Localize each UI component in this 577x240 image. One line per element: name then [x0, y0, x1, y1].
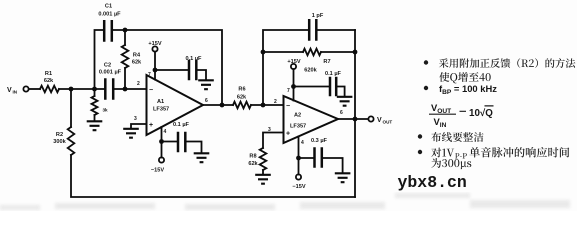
svg-text:0.3 µF: 0.3 µF — [311, 138, 328, 144]
svg-text:VIN: VIN — [434, 116, 447, 129]
svg-text:R1: R1 — [45, 71, 52, 77]
svg-text:A2: A2 — [294, 113, 301, 119]
svg-text:−15V: −15V — [292, 184, 305, 190]
svg-text:fBP = 100 kHz: fBP = 100 kHz — [439, 83, 497, 96]
svg-text:R4: R4 — [133, 53, 141, 59]
svg-text:0.1 µF: 0.1 µF — [186, 56, 203, 62]
svg-text:+15V: +15V — [287, 59, 300, 65]
svg-text:IN: IN — [13, 90, 18, 95]
svg-text:R8: R8 — [249, 154, 256, 160]
svg-text:1 pF: 1 pF — [312, 13, 324, 19]
svg-text:0.1 µF: 0.1 µF — [173, 122, 190, 128]
svg-text:62k: 62k — [248, 161, 258, 167]
svg-text:LF357: LF357 — [290, 124, 306, 130]
svg-text:+: + — [286, 131, 290, 138]
svg-text:R7: R7 — [323, 59, 330, 65]
svg-text:OUT: OUT — [383, 120, 393, 125]
svg-text:6: 6 — [205, 98, 208, 104]
svg-text:3: 3 — [268, 127, 271, 133]
svg-text:VOUT: VOUT — [431, 102, 451, 115]
svg-text:620k: 620k — [304, 68, 317, 74]
svg-text:7: 7 — [287, 88, 290, 94]
svg-text:+: + — [149, 122, 153, 129]
svg-text:V: V — [377, 117, 382, 124]
svg-text:4: 4 — [164, 129, 167, 135]
svg-text:0.1 µF: 0.1 µF — [325, 71, 342, 77]
svg-text:2: 2 — [137, 81, 140, 87]
svg-text:300k: 300k — [53, 139, 66, 145]
svg-text:7: 7 — [148, 72, 151, 78]
svg-text:3k: 3k — [102, 108, 108, 113]
svg-text:3: 3 — [134, 116, 137, 122]
svg-text:62k: 62k — [237, 95, 247, 101]
svg-text:62k: 62k — [44, 78, 54, 84]
svg-text:−: − — [286, 103, 290, 110]
svg-text:C1: C1 — [105, 4, 112, 10]
svg-text:10√Q: 10√Q — [469, 108, 493, 119]
svg-text:V: V — [7, 87, 12, 94]
svg-text:−: − — [149, 87, 153, 94]
svg-text:0.001 µF: 0.001 µF — [99, 70, 122, 76]
svg-text:0.001 µF: 0.001 µF — [98, 12, 121, 18]
svg-text:R2: R2 — [56, 132, 63, 138]
svg-text:2: 2 — [274, 99, 277, 105]
svg-text:+15V: +15V — [148, 41, 161, 47]
svg-text:−15V: −15V — [151, 168, 164, 174]
svg-text:6: 6 — [340, 110, 343, 116]
svg-text:A1: A1 — [157, 99, 164, 105]
svg-text:C2: C2 — [104, 63, 111, 69]
svg-text:ybx8.cn: ybx8.cn — [398, 173, 467, 192]
svg-text:LF357: LF357 — [153, 107, 169, 113]
svg-text:62k: 62k — [132, 60, 142, 66]
svg-text:4: 4 — [301, 140, 304, 146]
svg-text:R6: R6 — [238, 87, 245, 93]
